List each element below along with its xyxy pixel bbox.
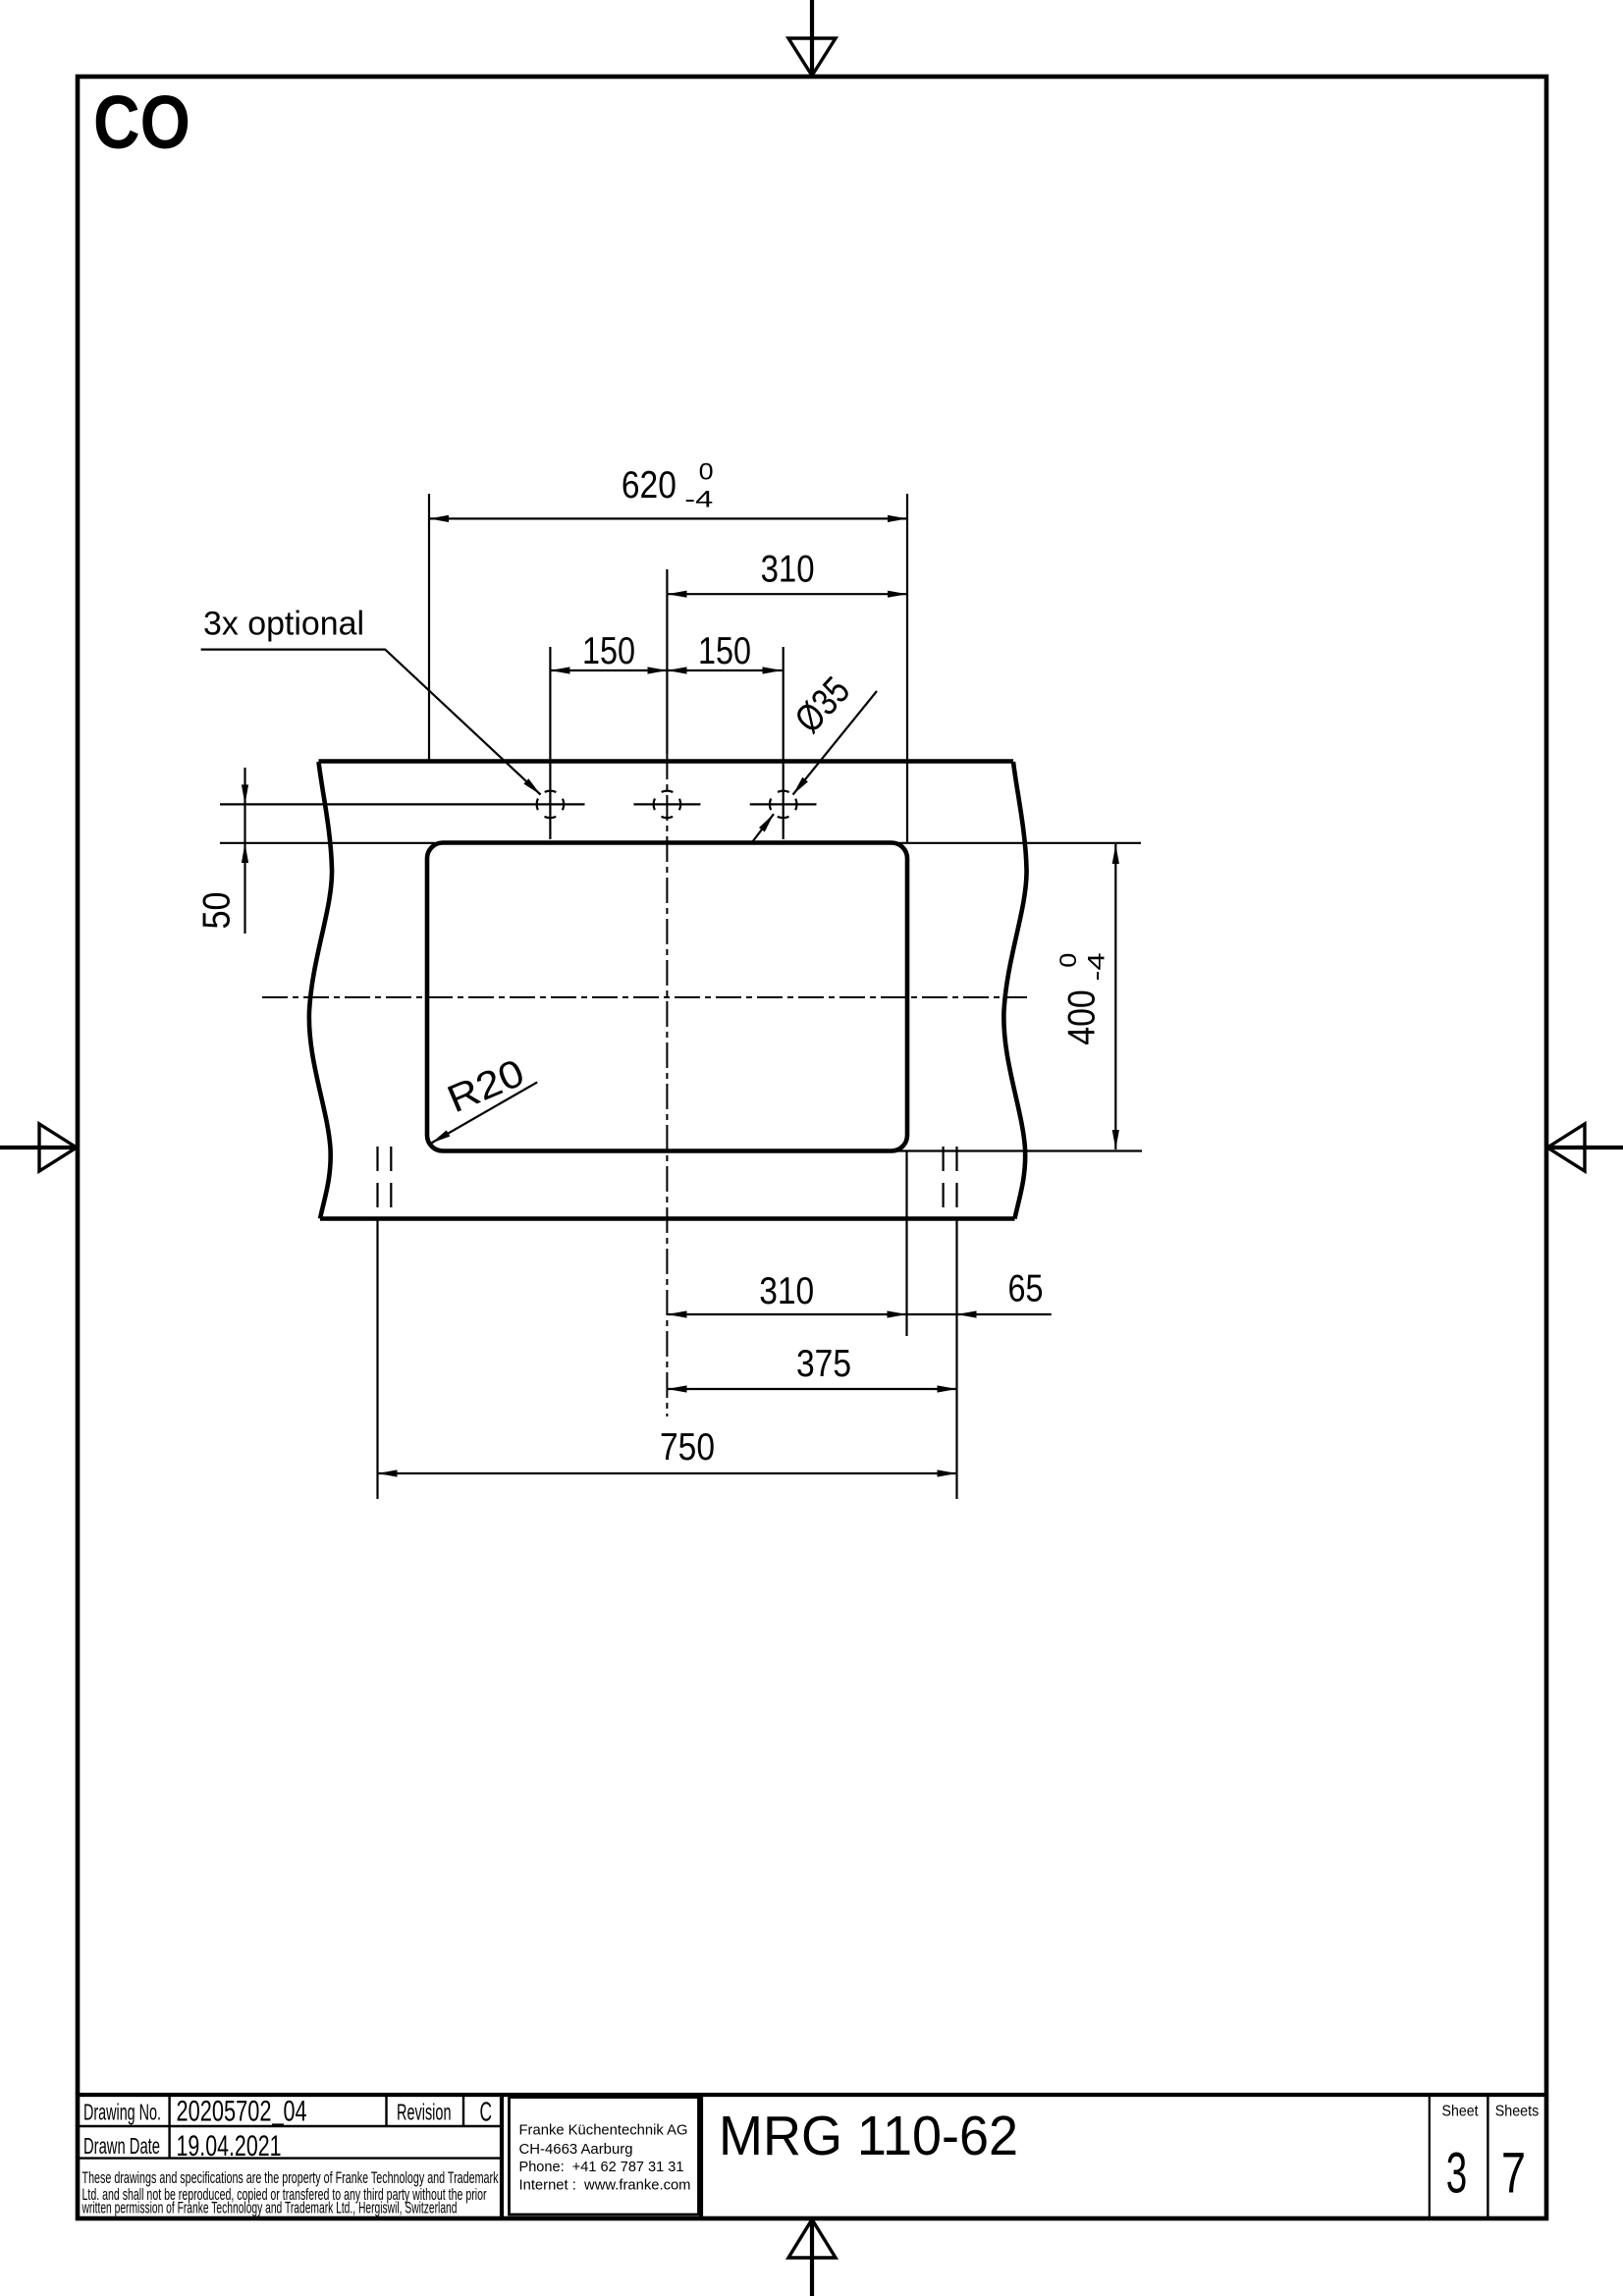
- svg-text:7: 7: [1501, 2142, 1526, 2206]
- title block top border: [78, 2093, 1546, 2097]
- extension line hole left: [549, 647, 551, 839]
- svg-text:-4: -4: [684, 486, 713, 512]
- label R20 with leader: [431, 1051, 537, 1143]
- extension line hole right: [783, 647, 784, 839]
- tap hole right: [770, 791, 797, 819]
- dimension 150 left: [550, 630, 782, 674]
- svg-text:Sheets: Sheets: [1495, 2104, 1540, 2120]
- svg-text:C: C: [480, 2097, 493, 2127]
- svg-text:CO: CO: [93, 80, 190, 165]
- dimension 50: [196, 768, 249, 934]
- svg-text:19.04.2021: 19.04.2021: [177, 2130, 282, 2163]
- svg-text:0: 0: [1055, 953, 1082, 968]
- svg-text:written permission of Franke T: written permission of Franke Technology …: [81, 2199, 458, 2217]
- label 3x optional with leader: [201, 606, 541, 795]
- hidden sink rim line outer left: [376, 1147, 378, 1219]
- svg-text:Franke Küchentechnik AG: Franke Küchentechnik AG: [519, 2123, 688, 2139]
- svg-text:3: 3: [1446, 2142, 1468, 2206]
- svg-text:Revision: Revision: [397, 2100, 452, 2125]
- extension line 750 right: [955, 1219, 957, 1500]
- dimension 750: [378, 1426, 957, 1477]
- svg-text:150: 150: [582, 630, 635, 672]
- hidden sink rim line inner right: [942, 1147, 944, 1219]
- dimension 400 right: [892, 843, 1142, 1151]
- svg-text:Sheet: Sheet: [1442, 2104, 1479, 2120]
- hole crosshair horizontal center: [633, 803, 700, 805]
- tap hole left: [537, 791, 565, 819]
- company address box: [510, 2098, 699, 2216]
- hole centerline horizontal left: [220, 803, 585, 805]
- dimension 620: [429, 459, 907, 523]
- hidden sink rim line outer right: [955, 1147, 957, 1219]
- sheet cells grid: [1429, 2095, 1431, 2216]
- sink cutout outline R20: [427, 843, 907, 1151]
- worktop left break line: [309, 762, 332, 1219]
- svg-text:0: 0: [699, 459, 714, 486]
- svg-text:Internet : www.franke.com: Internet : www.franke.com: [519, 2178, 691, 2194]
- extension line cutout right below: [905, 1151, 907, 1336]
- tap hole center: [654, 791, 681, 819]
- svg-text:Drawn Date: Drawn Date: [83, 2133, 160, 2159]
- title block left section grid: [80, 2095, 502, 2216]
- svg-text:3x optional: 3x optional: [203, 606, 364, 643]
- svg-text:20205702: 20205702: [177, 2096, 272, 2128]
- worktop top edge: [319, 759, 1014, 764]
- worktop right break line: [1003, 762, 1026, 1219]
- centering mark top: [788, 0, 836, 77]
- svg-text:150: 150: [698, 630, 751, 672]
- dimension 310 top: [668, 549, 908, 598]
- svg-text:Drawing No.: Drawing No.: [83, 2100, 161, 2125]
- svg-text:Phone: +41 62 787 31 31: Phone: +41 62 787 31 31: [519, 2160, 684, 2175]
- extension line 620 left: [428, 494, 430, 761]
- svg-text:MRG 110-62: MRG 110-62: [719, 2105, 1018, 2167]
- dimension 150 right: [668, 630, 783, 674]
- svg-text:310: 310: [759, 1270, 814, 1312]
- svg-text:65: 65: [1008, 1268, 1044, 1310]
- svg-text:750: 750: [660, 1426, 715, 1468]
- horizontal centerline: [262, 996, 1027, 998]
- svg-text:375: 375: [796, 1343, 851, 1385]
- company address text: [519, 2123, 691, 2194]
- svg-text:620: 620: [622, 464, 676, 507]
- centering mark right: [1546, 1124, 1623, 1171]
- svg-text:400: 400: [1061, 989, 1104, 1045]
- disclaimer text: [81, 2168, 499, 2217]
- svg-text:-4: -4: [1083, 953, 1109, 982]
- vertical centerline: [666, 569, 668, 754]
- dimension 65: [907, 1268, 1052, 1318]
- svg-text:04: 04: [284, 2096, 307, 2128]
- label diameter 35 with leader: [752, 669, 877, 842]
- centering mark bottom: [788, 2218, 836, 2296]
- hidden sink rim line inner left: [390, 1147, 392, 1219]
- svg-text:CH-4663 Aarburg: CH-4663 Aarburg: [519, 2142, 633, 2158]
- extension line 620/310 right: [906, 494, 908, 842]
- dimension 375: [668, 1343, 957, 1393]
- svg-text:310: 310: [761, 549, 815, 591]
- worktop bottom edge: [320, 1216, 1015, 1221]
- centering mark left: [0, 1124, 78, 1171]
- svg-text:50: 50: [196, 892, 239, 930]
- extension line cutout top left: [220, 842, 435, 844]
- hole crosshair horizontal right: [750, 803, 817, 805]
- dimension 310 bottom: [668, 1270, 907, 1318]
- extension line 750 left: [376, 1219, 378, 1500]
